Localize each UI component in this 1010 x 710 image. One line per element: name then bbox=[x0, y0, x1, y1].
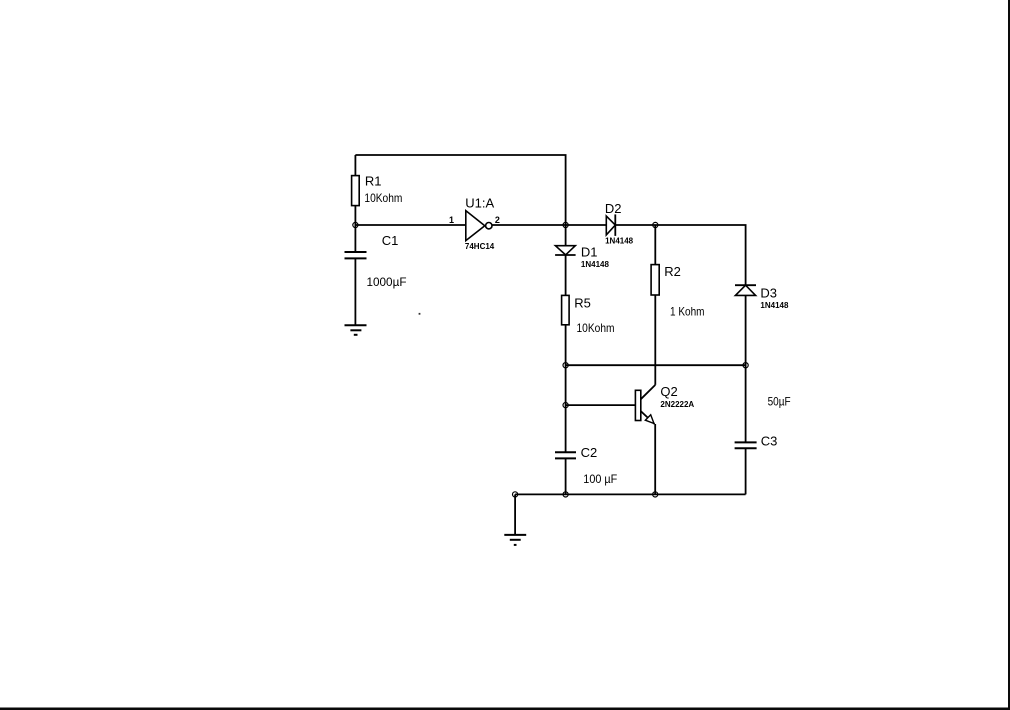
wire R2 bottom to Q2 collector bbox=[654, 295, 656, 385]
wire main node A to inverter input bbox=[355, 224, 465, 226]
capacitor C3 bbox=[735, 442, 757, 448]
capacitor C1 bbox=[345, 252, 367, 258]
wire inverter output to D2 bbox=[492, 224, 606, 226]
svg-text:U1:A: U1:A bbox=[465, 196, 494, 211]
svg-text:D3: D3 bbox=[760, 285, 777, 300]
ground (below C1) bbox=[345, 325, 367, 335]
wire C3 to bottom right corner bbox=[745, 448, 747, 494]
resistor R5 bbox=[562, 295, 570, 324]
node D (mid rail left) bbox=[563, 363, 568, 368]
wire Q2 emitter down bbox=[654, 424, 656, 494]
stray dot bbox=[419, 313, 421, 315]
svg-text:C2: C2 bbox=[581, 445, 598, 460]
resistor R1 bbox=[352, 176, 360, 206]
wire R1 bottom to C1 bbox=[354, 206, 356, 252]
wire R5 down through junctions to C2 bbox=[565, 325, 567, 453]
svg-text:10Kohm: 10Kohm bbox=[577, 321, 615, 335]
svg-text:C1: C1 bbox=[382, 233, 399, 248]
svg-text:R1: R1 bbox=[365, 174, 382, 189]
wire R2 top bbox=[654, 225, 656, 265]
wire node to D1 bbox=[565, 225, 567, 246]
op-amp U1 inverter triangle bbox=[466, 211, 485, 241]
svg-text:Q2: Q2 bbox=[660, 384, 677, 399]
node C (R2 top junction) bbox=[653, 222, 658, 227]
wire C2 bottom bbox=[565, 458, 567, 494]
diode D2 bbox=[606, 214, 615, 236]
svg-text:2: 2 bbox=[495, 215, 500, 225]
ground (bottom) bbox=[504, 535, 526, 545]
svg-text:D2: D2 bbox=[605, 201, 622, 216]
svg-text:10Kohm: 10Kohm bbox=[364, 191, 402, 205]
resistor R2 bbox=[651, 265, 659, 295]
node H (C2 bottom junction) bbox=[563, 492, 568, 497]
node G (ground junction) bbox=[513, 492, 518, 497]
wire D1 to R5 bbox=[565, 255, 567, 295]
node F (base junction) bbox=[563, 403, 568, 408]
diode D3 bbox=[735, 285, 756, 295]
svg-text:1000µF: 1000µF bbox=[367, 275, 407, 289]
svg-text:2N2222A: 2N2222A bbox=[660, 400, 694, 409]
svg-text:1N4148: 1N4148 bbox=[760, 301, 789, 310]
wire D3 to C3 bbox=[745, 295, 747, 442]
svg-text:R2: R2 bbox=[664, 264, 681, 279]
diode D1 bbox=[555, 246, 576, 255]
U1 output bubble bbox=[486, 223, 492, 229]
svg-text:R5: R5 bbox=[574, 296, 591, 311]
wire C1 to ground bbox=[354, 258, 356, 325]
node E (mid rail right) bbox=[743, 363, 748, 368]
wire D2 to top right corner bbox=[615, 225, 745, 285]
window border bottom bbox=[0, 708, 1010, 710]
node I (emitter junction) bbox=[653, 492, 658, 497]
svg-text:100 µF: 100 µF bbox=[583, 472, 617, 486]
node A (R1/C1/main) bbox=[353, 222, 358, 227]
svg-text:1 Kohm: 1 Kohm bbox=[670, 305, 705, 319]
wire Q2 base bbox=[566, 404, 636, 406]
wire top feedback bbox=[355, 155, 565, 225]
svg-text:C3: C3 bbox=[761, 434, 778, 449]
svg-text:1: 1 bbox=[449, 215, 454, 225]
wire R1 top bbox=[354, 155, 356, 176]
svg-text:50µF: 50µF bbox=[768, 395, 791, 409]
capacitor C2 bbox=[555, 452, 576, 458]
window border right bbox=[1008, 0, 1010, 710]
wire bottom rail bbox=[515, 493, 746, 495]
svg-text:1N4148: 1N4148 bbox=[605, 237, 634, 246]
svg-text:74HC14: 74HC14 bbox=[465, 242, 495, 251]
node B (inverter output junction) bbox=[563, 222, 568, 227]
wire horizontal mid (node row) bbox=[566, 364, 746, 366]
wire ground stem bbox=[514, 494, 516, 534]
svg-text:D1: D1 bbox=[581, 245, 598, 260]
transistor Q2 bbox=[635, 385, 655, 424]
svg-text:1N4148: 1N4148 bbox=[581, 260, 610, 269]
